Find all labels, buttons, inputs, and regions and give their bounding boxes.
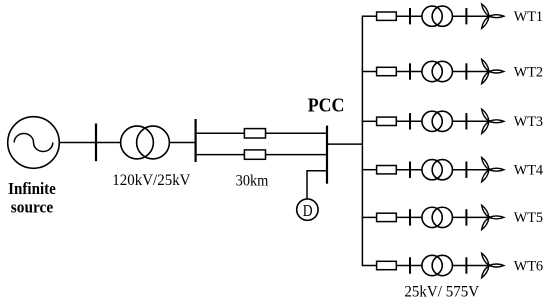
wire PCC to collector feeder [327,143,362,145]
svg-text:WT3: WT3 [514,114,543,130]
cable impedance Z-WT5 [377,213,397,221]
terminal tick WT1 primary [409,8,411,24]
bus B1 (120kV) [95,124,97,162]
terminal tick WT4 primary [409,162,411,178]
bus PCC [326,126,328,184]
wire transformer to turbine WT2 [452,71,489,73]
svg-text:WT4: WT4 [514,163,544,179]
transformer T-WT5 [422,207,452,227]
wire transformer to turbine WT6 [452,265,489,267]
cable impedance Z-WT4 [377,166,397,174]
collector feeder bus (25kV) [361,16,363,265]
svg-text:WT5: WT5 [514,210,543,226]
wire feeder to impedance Z-WT4 [362,169,377,171]
cable impedance Z-WT3 [377,117,397,125]
transformer T-WT1 [422,6,452,26]
wire Z-WT6 to transformer [396,265,422,267]
terminal tick WT2 primary [409,63,411,79]
transmission line circuit 1 (30km) [196,132,327,134]
wire transformer to turbine WT3 [452,120,489,122]
wire PCC to measurement device [307,171,327,199]
terminal tick WT5 secondary [465,209,467,225]
wire feeder to impedance Z-WT6 [362,265,377,267]
wire transformer to turbine WT4 [452,169,489,171]
transformer T-WT6 [422,255,452,275]
wind turbine rotor WT5 [480,204,504,230]
measurement device D [297,199,318,220]
wind turbine rotor WT4 [480,157,504,183]
wind turbine rotor WT3 [480,108,504,134]
terminal tick WT3 secondary [465,113,467,129]
wire Z-WT4 to transformer [396,169,422,171]
cable impedance Z-WT1 [377,12,397,20]
wire transformer to turbine WT1 [452,15,489,17]
infinite source G1 [8,117,60,169]
terminal tick WT6 secondary [465,257,467,273]
svg-text:PCC: PCC [308,95,345,117]
terminal tick WT3 primary [409,113,411,129]
terminal tick WT4 secondary [465,162,467,178]
svg-text:120kV/25kV: 120kV/25kV [112,172,191,189]
terminal tick WT6 primary [409,257,411,273]
cable impedance Z-WT2 [377,67,397,75]
transformer T-WT2 [422,61,452,81]
transformer T-WT4 [422,160,452,180]
wire Z-WT3 to transformer [396,120,422,122]
transformer T-WT3 [422,111,452,131]
transformer T1 [121,126,170,159]
terminal tick WT5 primary [409,209,411,225]
svg-text:WT1: WT1 [514,9,543,25]
label Infinite source [8,179,56,217]
wire feeder to impedance Z-WT1 [362,15,377,17]
wind turbine rotor WT6 [480,252,504,278]
wind turbine rotor WT2 [480,58,504,84]
svg-text:source: source [11,198,54,217]
svg-text:Infinite: Infinite [8,179,56,198]
wire transformer to turbine WT5 [452,216,489,218]
cable impedance Z-WT6 [377,261,397,269]
svg-text:WT6: WT6 [514,258,544,274]
wire Z-WT2 to transformer [396,71,422,73]
line impedance Z2 [244,150,265,159]
terminal tick WT1 secondary [465,8,467,24]
bus B2 (25kV sending) [195,119,197,162]
transmission line circuit 2 (30km) [196,154,327,156]
svg-text:25kV/ 575V: 25kV/ 575V [404,283,479,300]
wire Z-WT1 to transformer [396,15,422,17]
wire T1 to bus B2 [169,142,195,144]
wire feeder to impedance Z-WT2 [362,71,377,73]
wire feeder to impedance Z-WT3 [362,120,377,122]
wire feeder to impedance Z-WT5 [362,216,377,218]
wind turbine rotor WT1 [480,3,504,29]
svg-text:WT2: WT2 [514,64,543,80]
wire Z-WT5 to transformer [396,216,422,218]
line impedance Z1 [244,129,265,138]
svg-text:30km: 30km [236,173,269,190]
wire source to transformer T1 [59,142,121,144]
svg-text:D: D [303,201,313,220]
terminal tick WT2 secondary [465,63,467,79]
